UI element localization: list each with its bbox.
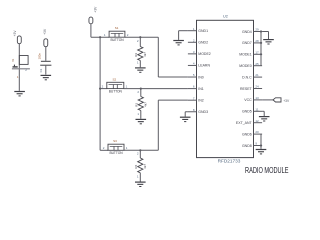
svg-text:S3: S3 — [113, 139, 117, 143]
svg-text:+3V: +3V — [43, 28, 47, 35]
svg-text:GND6: GND6 — [242, 132, 252, 136]
svg-text:MODE1: MODE1 — [239, 53, 252, 57]
svg-text:1: 1 — [104, 33, 106, 37]
svg-text:+3V: +3V — [94, 6, 98, 13]
svg-text:S2: S2 — [112, 77, 116, 81]
svg-text:RFD21733: RFD21733 — [218, 158, 241, 163]
svg-text:2: 2 — [137, 152, 139, 156]
svg-text:EXT_ANT: EXT_ANT — [236, 121, 253, 125]
svg-text:BUTTON: BUTTON — [109, 151, 123, 155]
svg-text:20: 20 — [255, 130, 259, 134]
svg-text:100n: 100n — [37, 53, 41, 60]
svg-text:RESET: RESET — [240, 87, 253, 91]
svg-text:2: 2 — [103, 146, 105, 150]
svg-text:1: 1 — [137, 112, 139, 116]
svg-text:BUTTON: BUTTON — [110, 38, 124, 42]
svg-text:13: 13 — [255, 96, 259, 100]
svg-text:S1: S1 — [115, 26, 119, 30]
svg-text:24: 24 — [255, 85, 259, 89]
svg-text:GND5: GND5 — [242, 110, 252, 114]
svg-text:IN2: IN2 — [198, 98, 204, 102]
svg-text:R3: R3 — [135, 103, 139, 107]
svg-text:IN0: IN0 — [198, 75, 204, 79]
svg-text:2: 2 — [102, 84, 104, 88]
svg-text:MODE0: MODE0 — [239, 64, 252, 68]
svg-text:1: 1 — [126, 146, 128, 150]
svg-text:+3V: +3V — [283, 99, 290, 103]
svg-text:GND4: GND4 — [242, 30, 252, 34]
svg-text:GND7: GND7 — [242, 41, 252, 45]
svg-text:GND3: GND3 — [198, 110, 208, 114]
svg-text:17: 17 — [255, 50, 259, 54]
svg-text:IN1: IN1 — [198, 87, 204, 91]
svg-text:R2: R2 — [134, 53, 138, 57]
svg-text:U2: U2 — [223, 14, 228, 18]
svg-text:21: 21 — [255, 73, 259, 77]
svg-text:MODE2: MODE2 — [198, 52, 211, 56]
svg-text:GND8: GND8 — [242, 144, 252, 148]
svg-text:BUTTON: BUTTON — [109, 89, 123, 93]
svg-text:RADIO MODULE: RADIO MODULE — [245, 166, 289, 175]
svg-text:28: 28 — [255, 39, 259, 43]
svg-text:1: 1 — [137, 175, 139, 179]
svg-text:4k7: 4k7 — [143, 164, 147, 169]
svg-text:B1: B1 — [12, 58, 15, 62]
svg-text:LEARN: LEARN — [198, 64, 210, 68]
svg-text:11: 11 — [255, 107, 258, 111]
svg-text:1: 1 — [193, 27, 195, 31]
svg-text:2: 2 — [137, 90, 139, 94]
svg-text:4k7: 4k7 — [144, 102, 148, 107]
svg-text:1: 1 — [126, 84, 128, 88]
svg-text:12: 12 — [255, 119, 259, 123]
svg-text:2: 2 — [137, 39, 139, 43]
svg-text:R4: R4 — [134, 164, 138, 168]
svg-text:29: 29 — [255, 28, 259, 32]
svg-text:4k7: 4k7 — [143, 52, 147, 57]
svg-text:VCC: VCC — [244, 98, 252, 102]
svg-text:2: 2 — [127, 33, 129, 37]
svg-text:25: 25 — [255, 62, 259, 66]
svg-text:D.N.C: D.N.C — [242, 75, 252, 79]
svg-text:1: 1 — [17, 75, 19, 79]
svg-text:+3V: +3V — [13, 30, 17, 37]
svg-text:1: 1 — [137, 61, 139, 65]
svg-text:GND1: GND1 — [198, 29, 208, 33]
svg-text:C2: C2 — [39, 68, 43, 72]
svg-text:GND2: GND2 — [198, 41, 208, 45]
